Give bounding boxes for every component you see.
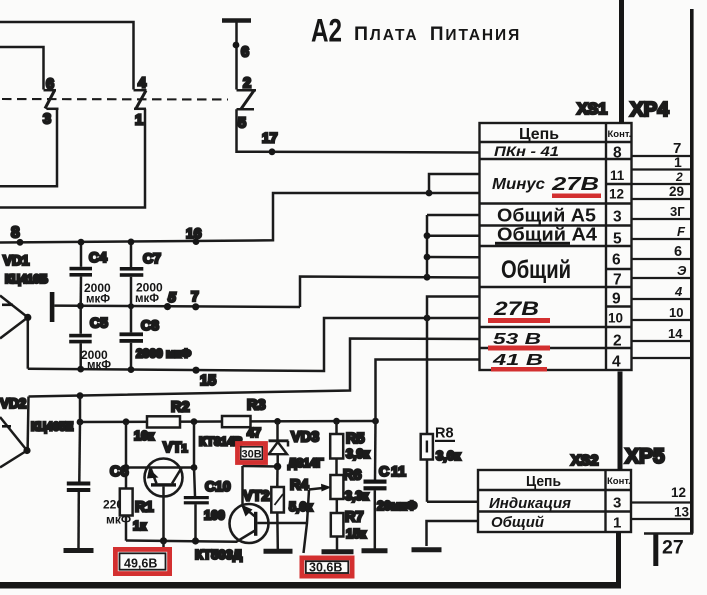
ground bar R4 xyxy=(264,549,293,554)
node 7 junction dot xyxy=(192,303,199,310)
svg-text:ПКн - 41: ПКн - 41 xyxy=(494,143,559,159)
svg-text:4: 4 xyxy=(138,76,146,92)
svg-text:27В: 27В xyxy=(551,174,599,194)
capacitor C11 xyxy=(364,421,387,549)
svg-text:Минус: Минус xyxy=(492,176,545,193)
svg-text:C4: C4 xyxy=(89,249,107,265)
junction dot VT1 left xyxy=(123,464,130,471)
svg-text:16: 16 xyxy=(186,225,202,241)
thick bus line lower segment xyxy=(616,532,621,585)
svg-text:Э: Э xyxy=(677,263,687,278)
svg-text:VD2: VD2 xyxy=(0,396,26,411)
svg-text:XS1: XS1 xyxy=(577,101,607,118)
terminal bar above switch contact 2 xyxy=(222,18,251,23)
svg-text:4: 4 xyxy=(674,284,683,299)
junction dot VD3 anode xyxy=(274,463,282,471)
svg-text:7: 7 xyxy=(613,272,622,289)
svg-text:3: 3 xyxy=(613,495,621,512)
switch section S1.3 contacts 2-5 xyxy=(237,90,257,109)
junction dot common pin 6 branch xyxy=(424,254,431,261)
wire emitter rail VT1 base to VT2 xyxy=(126,541,237,542)
svg-text:47: 47 xyxy=(247,426,261,440)
svg-text:1: 1 xyxy=(674,154,682,170)
red measurement box 49.6V xyxy=(115,549,169,573)
svg-text:3,3к: 3,3к xyxy=(345,489,369,503)
svg-text:C11: C11 xyxy=(379,463,406,479)
capacitor C10 xyxy=(184,468,209,541)
ground bar XS2 common xyxy=(412,547,442,552)
svg-text:8: 8 xyxy=(11,225,20,242)
wire from contact 1 down-left to edge xyxy=(0,109,145,208)
junction dot common at pin 7 wire xyxy=(424,274,431,281)
svg-text:3: 3 xyxy=(43,112,51,128)
XP5 pin numbers xyxy=(671,485,690,520)
svg-text:2: 2 xyxy=(243,76,251,92)
junction dot base rail at R1 xyxy=(123,418,130,425)
thick bus line upper segment xyxy=(619,0,624,123)
XP4 pin numbers xyxy=(668,140,687,341)
wire branch to XS1 pin 11 xyxy=(429,174,480,193)
resistor R1 xyxy=(120,468,133,541)
resistor R7 xyxy=(331,513,344,550)
svg-text:Общий: Общий xyxy=(491,515,544,531)
svg-text:30В: 30В xyxy=(242,449,262,461)
wire node 8 rail to XS1 pin 12 (minus 27V) xyxy=(0,193,480,243)
svg-text:17: 17 xyxy=(262,130,278,146)
svg-text:2000 мкФ: 2000 мкФ xyxy=(136,347,191,361)
junction dot base rail at C11 xyxy=(372,418,379,425)
svg-text:41 В: 41 В xyxy=(491,352,543,369)
svg-text:5: 5 xyxy=(168,289,176,305)
wire contact 5 to XS1 pin 8 row (PKn-41) xyxy=(237,109,480,152)
resistor R8 xyxy=(421,318,433,502)
connector table XS1 frame xyxy=(480,123,632,370)
svg-text:R6: R6 xyxy=(343,468,362,484)
svg-text:C10: C10 xyxy=(205,478,231,494)
svg-text:ХР5: ХР5 xyxy=(625,445,665,468)
VD2 output junction dot xyxy=(23,447,30,454)
junction dot cap midpoint C7-C8 xyxy=(128,303,134,309)
svg-text:R8: R8 xyxy=(435,426,454,442)
ground bar C11 xyxy=(362,548,388,553)
node 5 junction dot xyxy=(164,303,171,310)
svg-text:27: 27 xyxy=(662,537,684,559)
svg-text:27В: 27В xyxy=(493,299,540,320)
junction dot C10 bottom xyxy=(192,537,199,544)
svg-text:1: 1 xyxy=(613,515,621,532)
wire branch to XS1 pin 9 xyxy=(427,297,480,319)
XP5 pin tick wires xyxy=(631,503,691,520)
label R8 underlined xyxy=(435,426,455,443)
node 6 junction dot xyxy=(233,42,240,49)
wire terminal to contact 2 xyxy=(235,23,238,90)
svg-text:C8: C8 xyxy=(141,317,159,333)
svg-text:3,9к: 3,9к xyxy=(346,447,370,461)
svg-text:10: 10 xyxy=(608,311,623,326)
svg-text:3,6к: 3,6к xyxy=(436,448,461,463)
switch section S1.1 contacts 6-3 xyxy=(44,90,59,109)
junction dot VT1 right xyxy=(191,464,198,471)
svg-text:5,6к: 5,6к xyxy=(289,500,313,514)
svg-text:7: 7 xyxy=(191,288,199,304)
thick bus line middle segment xyxy=(618,372,623,471)
svg-text:10к: 10к xyxy=(134,429,155,443)
label C5 value xyxy=(81,348,111,372)
svg-text:3Г: 3Г xyxy=(670,204,685,219)
svg-text:C7: C7 xyxy=(143,250,161,266)
capacitor C6 xyxy=(67,422,91,548)
wire bottom rail node 15 to XS1 pin 10 (27V) xyxy=(28,318,480,371)
mechanical link dashed line xyxy=(2,98,228,101)
wire top feed to switch contact 4 xyxy=(0,22,134,90)
junction dot 27V rail split xyxy=(424,315,431,322)
svg-text:А2: А2 xyxy=(311,13,342,49)
resistor R3 xyxy=(222,416,251,427)
svg-text:11: 11 xyxy=(610,168,625,183)
svg-text:12: 12 xyxy=(609,187,624,202)
junction dot rail at C6 column xyxy=(77,392,84,399)
label C6 value xyxy=(103,498,131,527)
svg-text:Цепь: Цепь xyxy=(519,126,559,143)
junction dot cap midpoint C4-C5 xyxy=(77,302,84,309)
svg-text:53 В: 53 В xyxy=(493,331,541,348)
junction dot base rail at VD3 xyxy=(274,418,281,425)
junction dot C5 bottom xyxy=(77,366,84,373)
svg-text:F: F xyxy=(677,224,686,239)
transistor VT1 xyxy=(126,422,194,541)
svg-text:R5: R5 xyxy=(346,431,365,447)
svg-text:30,6В: 30,6В xyxy=(309,561,342,575)
svg-text:15: 15 xyxy=(200,373,216,389)
resistor R5 xyxy=(330,421,343,475)
capacitor C7 xyxy=(120,242,144,306)
transformer tap bar xyxy=(50,292,55,322)
svg-text:5: 5 xyxy=(238,116,246,132)
label C4 value xyxy=(84,281,111,306)
svg-text:Индикация: Индикация xyxy=(489,496,571,512)
svg-text:VT1: VT1 xyxy=(163,440,188,456)
resistor R2 xyxy=(147,416,180,427)
wire XS2 Obshchiy to ground xyxy=(427,521,479,546)
XS1 header text xyxy=(491,126,631,371)
red underline minus 27V xyxy=(552,194,601,199)
svg-text:Цепь: Цепь xyxy=(526,474,561,490)
wiper wire VT2 base to R6 with leader to 30.6V box xyxy=(304,484,332,553)
variable resistor R4 xyxy=(271,467,284,550)
svg-text:ХР4: ХР4 xyxy=(630,98,669,121)
svg-text:20мкФ: 20мкФ xyxy=(377,499,417,513)
node 17 junction dot xyxy=(269,148,276,155)
trimmer resistor R6 xyxy=(330,475,343,513)
capacitor C5 xyxy=(69,306,92,369)
wire 41V output to XS1 pin 4 xyxy=(376,360,480,422)
XP4 pin tick wires xyxy=(632,156,691,358)
junction dot base rail at R5 xyxy=(333,418,340,425)
svg-text:R7: R7 xyxy=(345,510,364,526)
svg-text:R2: R2 xyxy=(171,400,190,416)
switch section S1.2 contacts 4-1 xyxy=(134,90,147,109)
sheet bottom border xyxy=(0,582,621,589)
svg-text:R3: R3 xyxy=(247,398,266,414)
red measurement box 30.6V xyxy=(302,558,352,576)
svg-text:Д814Г: Д814Г xyxy=(288,456,324,470)
capacitor C4 xyxy=(70,242,93,306)
junction dot base rail at C6 xyxy=(77,419,84,426)
svg-text:5: 5 xyxy=(613,231,622,248)
wire drop to base rail xyxy=(79,396,82,422)
svg-text:8: 8 xyxy=(613,145,622,162)
wire base rail R2 R3 xyxy=(80,421,376,422)
red underline 27V xyxy=(488,318,550,323)
svg-text:29: 29 xyxy=(669,184,684,199)
svg-text:Конт.: Конт. xyxy=(607,476,631,487)
svg-text:13: 13 xyxy=(674,505,690,520)
junction dot common pin 5 branch xyxy=(424,232,431,239)
svg-text:6: 6 xyxy=(241,45,249,61)
svg-text:мкФ: мкФ xyxy=(86,294,110,306)
red underline 53V xyxy=(488,346,550,351)
wire midpoint rail (nodes 5,7) xyxy=(54,306,300,307)
svg-text:6: 6 xyxy=(46,77,54,93)
junction dot C4 top xyxy=(78,239,85,246)
svg-text:14: 14 xyxy=(668,326,683,341)
capacitor C8 xyxy=(120,307,144,371)
XS2 texts xyxy=(489,474,631,532)
VD1 output junction dot xyxy=(24,314,31,321)
svg-text:49,6В: 49,6В xyxy=(124,557,157,571)
svg-text:Общий: Общий xyxy=(501,256,571,284)
sheet right edge line xyxy=(690,9,694,534)
ground bar R7 xyxy=(322,549,354,554)
junction dot C7 top xyxy=(128,239,135,246)
svg-text:1: 1 xyxy=(135,113,143,129)
transistor VT2 xyxy=(230,466,307,543)
diode bridge VD2 xyxy=(0,397,29,468)
ground bar C6 xyxy=(64,548,94,553)
node 8 junction dot xyxy=(17,239,24,246)
svg-text:1к: 1к xyxy=(133,519,147,533)
node 16 junction dot xyxy=(193,238,200,245)
wire VD2 rail to XS1 pin 2 (53V) xyxy=(29,339,480,397)
node 15 junction dot xyxy=(192,367,199,374)
diode bridge VD1 xyxy=(0,296,28,369)
svg-text:КЦ410Б: КЦ410Б xyxy=(5,274,48,286)
svg-text:VD1: VD1 xyxy=(3,253,30,268)
minus polarity tick VD2 xyxy=(2,425,11,428)
zener diode VD3 xyxy=(269,421,289,466)
red underline 41V xyxy=(491,367,547,372)
junction dot C8 bottom xyxy=(128,366,135,373)
svg-text:XS2: XS2 xyxy=(571,453,598,469)
svg-text:100: 100 xyxy=(204,509,225,523)
wire feed to switch contact 6 xyxy=(0,47,44,90)
svg-text:КТ503Д: КТ503Д xyxy=(195,547,243,562)
label C7 value xyxy=(135,281,163,306)
svg-text:Общий А5: Общий А5 xyxy=(497,206,596,226)
minus polarity tick VD1 xyxy=(2,304,13,307)
svg-text:6: 6 xyxy=(612,252,621,269)
red measurement box 30V xyxy=(238,444,266,463)
svg-text:КЦ405Е: КЦ405Е xyxy=(31,422,74,434)
svg-text:10: 10 xyxy=(669,305,683,320)
wire from contact 3 down-left to edge xyxy=(0,109,57,187)
svg-text:15к: 15к xyxy=(346,527,367,541)
svg-text:6: 6 xyxy=(674,244,682,260)
junction dot minus rail split xyxy=(426,190,433,197)
svg-text:VT2: VT2 xyxy=(243,489,270,505)
wire R8 to XS2 Indikatsiya xyxy=(427,501,478,504)
leader wire to 49.6V box xyxy=(162,541,165,551)
wire common node 7 to XS1 pin 7 xyxy=(300,277,480,308)
junction dot measurement node 49.6V xyxy=(160,537,167,544)
svg-text:мкФ: мкФ xyxy=(135,293,159,305)
svg-text:2: 2 xyxy=(675,170,683,184)
svg-text:Конт.: Конт. xyxy=(608,129,632,140)
junction dot base rail at VT1 right xyxy=(191,418,198,425)
title A2 Plata pitaniya xyxy=(311,13,521,49)
svg-text:C5: C5 xyxy=(90,315,108,331)
wire common chain to XS1 pins 3,5,6 xyxy=(427,215,480,277)
svg-text:ПЛАТА ПИТАНИЯ: ПЛАТА ПИТАНИЯ xyxy=(354,23,521,45)
svg-text:12: 12 xyxy=(671,485,686,500)
svg-text:2: 2 xyxy=(613,333,622,350)
svg-text:VD3: VD3 xyxy=(291,430,319,446)
svg-text:Общий А4: Общий А4 xyxy=(497,225,597,245)
svg-text:9: 9 xyxy=(612,291,621,308)
connector table XS2 frame xyxy=(478,470,631,532)
sheet number 27 with tick xyxy=(653,533,683,566)
svg-text:3: 3 xyxy=(613,209,622,226)
svg-text:R4: R4 xyxy=(290,478,309,494)
svg-text:R1: R1 xyxy=(135,500,154,516)
corner line bottom right xyxy=(644,532,693,535)
svg-text:4: 4 xyxy=(612,354,621,371)
